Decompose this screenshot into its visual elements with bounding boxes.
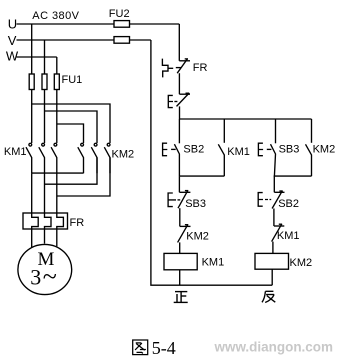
svg-text:AC 380V: AC 380V <box>32 10 79 22</box>
svg-text:V: V <box>8 33 17 48</box>
svg-text:KM1: KM1 <box>277 230 300 242</box>
svg-text:FU2: FU2 <box>109 8 130 20</box>
svg-text:KM1: KM1 <box>227 146 250 158</box>
svg-text:KM2: KM2 <box>290 257 313 269</box>
svg-text:KM1: KM1 <box>4 146 27 158</box>
svg-text:~: ~ <box>43 262 57 291</box>
svg-text:KM1: KM1 <box>202 257 225 269</box>
svg-text:3: 3 <box>30 265 41 290</box>
svg-text:SB2: SB2 <box>278 198 299 210</box>
svg-text:SB2: SB2 <box>183 144 204 156</box>
svg-text:SB3: SB3 <box>279 144 300 156</box>
svg-text:FR: FR <box>193 62 208 74</box>
svg-text:KM2: KM2 <box>313 144 336 156</box>
svg-text:FR: FR <box>70 217 85 229</box>
svg-text:KM2: KM2 <box>186 231 209 243</box>
svg-text:SB3: SB3 <box>185 198 206 210</box>
svg-text:U: U <box>8 16 17 31</box>
svg-text:W: W <box>6 49 19 64</box>
svg-text:KM2: KM2 <box>112 149 135 161</box>
svg-text:FU1: FU1 <box>62 74 83 86</box>
svg-text:5-4: 5-4 <box>152 338 176 358</box>
svg-text:www.diangon.com: www.diangon.com <box>214 339 333 355</box>
